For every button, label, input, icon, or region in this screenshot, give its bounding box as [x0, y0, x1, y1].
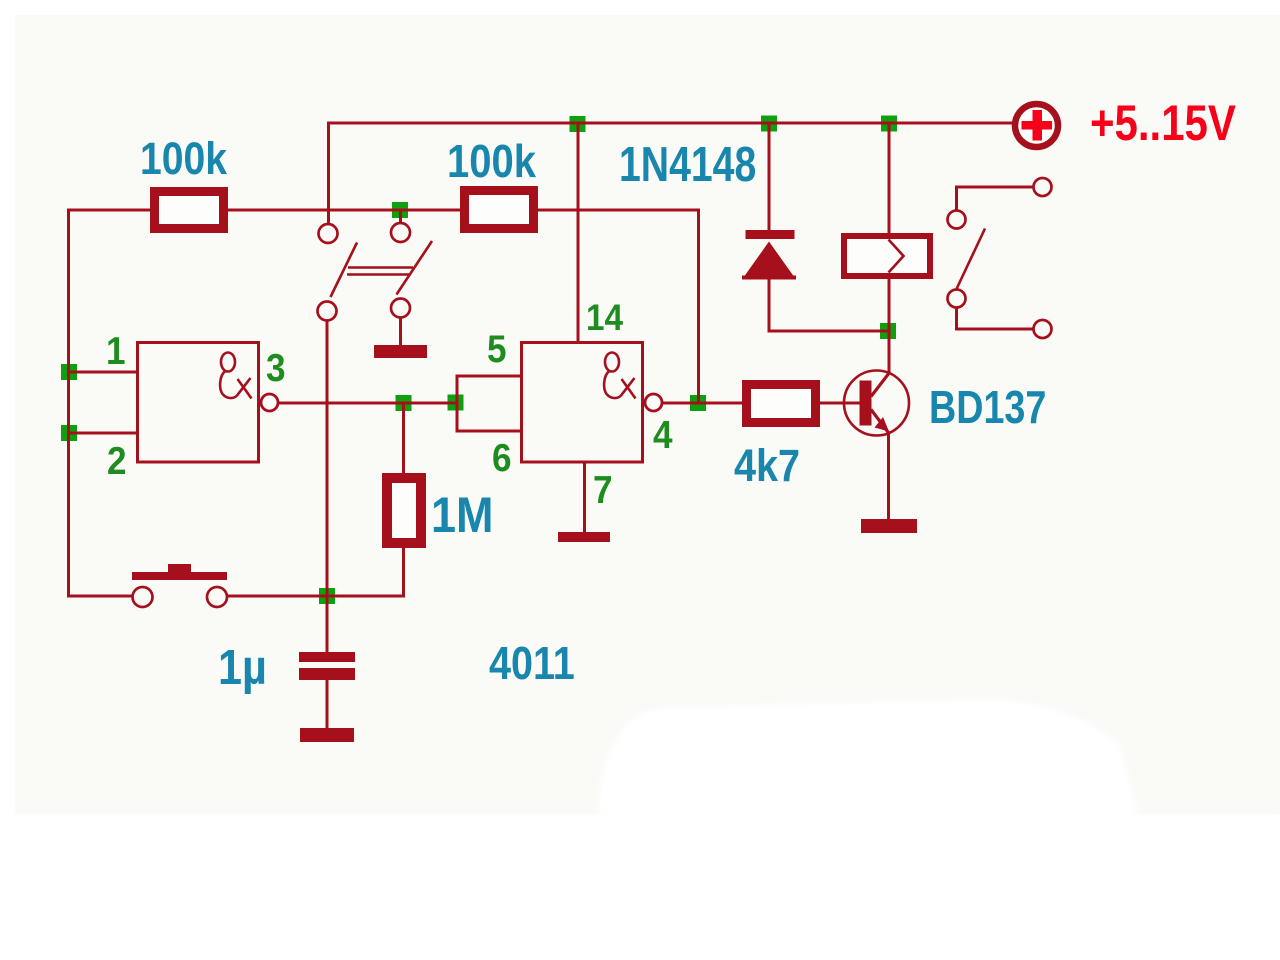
wire 1M top to gate1 output node: [402, 403, 405, 478]
svg-text:4k7: 4k7: [734, 441, 800, 491]
wire rail corner down to left coupled-switch top contact: [327, 122, 330, 225]
pushbutton S1 bar: [132, 572, 227, 580]
wire top supply rail: [327, 122, 1013, 125]
transistor Q1 BD137 circle: [844, 371, 909, 436]
label 1M: [431, 488, 493, 544]
wire left switch contact down to capacitor node: [326, 321, 329, 653]
coupled switch left blade: [331, 243, 358, 298]
label 4k7: [734, 441, 800, 491]
label 100k (R2): [447, 136, 537, 187]
pin label 6: [492, 435, 512, 479]
wire R1 to R2 segment: [223, 209, 465, 212]
pin label 1: [106, 328, 126, 372]
pin label 4: [653, 412, 673, 456]
pin label 3: [266, 345, 286, 389]
node gate1 pin2 bus tap: [61, 425, 77, 441]
resistor 4k7: [747, 385, 816, 423]
NAND gate U1A ampersand: [220, 353, 251, 399]
pin label 14: [586, 297, 623, 338]
svg-text:2: 2: [107, 438, 127, 482]
wire gate2 input bracket bottom: [457, 430, 521, 433]
svg-text:4011: 4011: [489, 638, 575, 689]
NAND gate U1B ampersand: [604, 353, 635, 399]
wire rail to relay coil top: [888, 122, 891, 237]
svg-text:100k: 100k: [447, 136, 537, 187]
wire relay coil bottom to transistor collector: [888, 276, 891, 374]
pin label 5: [487, 326, 507, 370]
wire gate2 output to 4k7: [662, 402, 748, 405]
transistor Q1 emitter stroke with arrow: [871, 410, 890, 435]
relay contact top terminal circle: [1034, 178, 1052, 196]
label 1N4148: [619, 138, 756, 192]
pushbutton S1 left contact circle: [133, 587, 153, 607]
relay contact blade: [957, 229, 986, 290]
NAND gate U1A output bubble (pin 3): [261, 394, 278, 411]
svg-text:1: 1: [106, 328, 126, 372]
wire gate2 input bracket vertical: [456, 375, 459, 433]
pin label 2: [107, 438, 127, 482]
wire rail to diode cathode: [768, 122, 771, 233]
label BD137: [929, 381, 1046, 432]
wire 4k7 to transistor base: [815, 402, 860, 405]
svg-text:1N4148: 1N4148: [619, 138, 756, 192]
coupled switch right bottom contact: [391, 299, 410, 318]
wire R1 left segment: [67, 209, 155, 212]
resistor 1M (vertical): [387, 478, 421, 543]
ground bar under transistor emitter: [861, 519, 917, 533]
coupled switch right top contact: [391, 223, 410, 242]
label 4011: [489, 638, 575, 689]
node V+ rail junction at relay: [881, 116, 897, 132]
label +5..15V: [1090, 95, 1236, 151]
coupled switch left top contact: [319, 224, 338, 243]
NAND gate U1A box (pins 1,2,3): [138, 343, 259, 463]
node capacitor top / pushbutton: [319, 588, 335, 604]
capacitor 1u bottom plate: [299, 668, 355, 680]
coupled switch left bottom contact: [318, 302, 337, 321]
diode 1N4148 anode triangle: [742, 242, 796, 280]
wire 1M bottom corner: [402, 543, 405, 598]
svg-text:3: 3: [266, 345, 286, 389]
svg-text:4: 4: [653, 412, 673, 456]
label 1u: [218, 639, 267, 694]
pushbutton S1 right contact circle: [207, 587, 227, 607]
wire right switch bottom contact to ground: [399, 317, 402, 346]
power symbol +V ring: [1015, 104, 1058, 147]
svg-text:+5..15V: +5..15V: [1090, 95, 1236, 151]
wire left bus vertical: [67, 209, 70, 598]
pin label 7: [593, 467, 613, 511]
wire right switch node to top contact: [399, 209, 402, 224]
relay contact moving pole circle: [948, 290, 966, 308]
relay contact fixed pole circle: [948, 211, 966, 229]
wire gate2 pin7 to ground: [583, 462, 586, 533]
node V+ rail junction at diode: [761, 116, 777, 132]
capacitor 1u top plate: [299, 652, 355, 662]
node R2 left / switch tap: [392, 202, 408, 218]
NAND gate U1B output bubble (pin 4): [645, 394, 662, 411]
wire diode return to collector node: [768, 330, 890, 333]
coupled switch linkage double line: [347, 268, 413, 275]
ground bar under gate2 pin 7: [558, 532, 610, 542]
transistor Q1 collector stroke: [871, 373, 890, 397]
svg-text:1µ: 1µ: [218, 639, 267, 694]
ground bar under right coupled switch: [374, 345, 427, 358]
wire gate2 input bracket top: [457, 375, 521, 378]
node relay bottom / collector / diode return: [880, 323, 896, 339]
wire diode anode down: [768, 276, 771, 333]
resistor 100k (R2, middle): [465, 191, 534, 229]
svg-text:100k: 100k: [140, 133, 228, 183]
wire feedback drop to gate2 output node: [697, 209, 700, 404]
ground bar under capacitor: [300, 728, 354, 742]
wire relay contact top terminal: [957, 187, 1034, 211]
wire relay contact bottom terminal: [957, 308, 1034, 330]
svg-text:5: 5: [487, 326, 507, 370]
wire gate1 output to gate2 bracket: [277, 402, 457, 405]
node gate1 pin1 bus tap: [61, 364, 77, 380]
diode 1N4148 cathode bar: [746, 230, 795, 239]
relay coil K1: [844, 236, 930, 276]
node V+ rail junction at pin14 drop: [570, 116, 586, 132]
svg-text:14: 14: [586, 297, 623, 338]
svg-text:BD137: BD137: [929, 381, 1046, 432]
relay contact bottom terminal circle: [1034, 320, 1052, 338]
wire transistor emitter to ground: [887, 432, 890, 520]
wire R2 right segment to feedback corner: [533, 209, 700, 212]
label 100k (R1): [140, 133, 228, 183]
node gate2 input bracket: [448, 395, 464, 411]
svg-text:1M: 1M: [431, 488, 493, 544]
svg-text:6: 6: [492, 435, 512, 479]
resistor 100k (R1, left): [155, 192, 224, 229]
node gate2 output / feedback: [690, 395, 706, 411]
NAND gate U1B box (pins 5,6,4): [522, 343, 643, 463]
svg-text:7: 7: [593, 467, 613, 511]
transistor Q1 base bar: [860, 381, 872, 426]
wire bottom left to pushbutton: [67, 595, 133, 598]
wire gate2 pin14 drop from rail: [577, 123, 580, 342]
pushbutton S1 actuator nub: [168, 564, 191, 572]
coupled switch right blade: [397, 241, 433, 295]
power symbol plus cross: [1022, 110, 1053, 141]
wire gate1 pin2 stub: [68, 432, 137, 435]
wire pushbutton to 1M corner: [227, 595, 406, 598]
node gate1 output / 1M top: [396, 395, 412, 411]
wire gate1 pin1 stub: [68, 371, 137, 374]
wire capacitor to ground: [326, 679, 329, 730]
